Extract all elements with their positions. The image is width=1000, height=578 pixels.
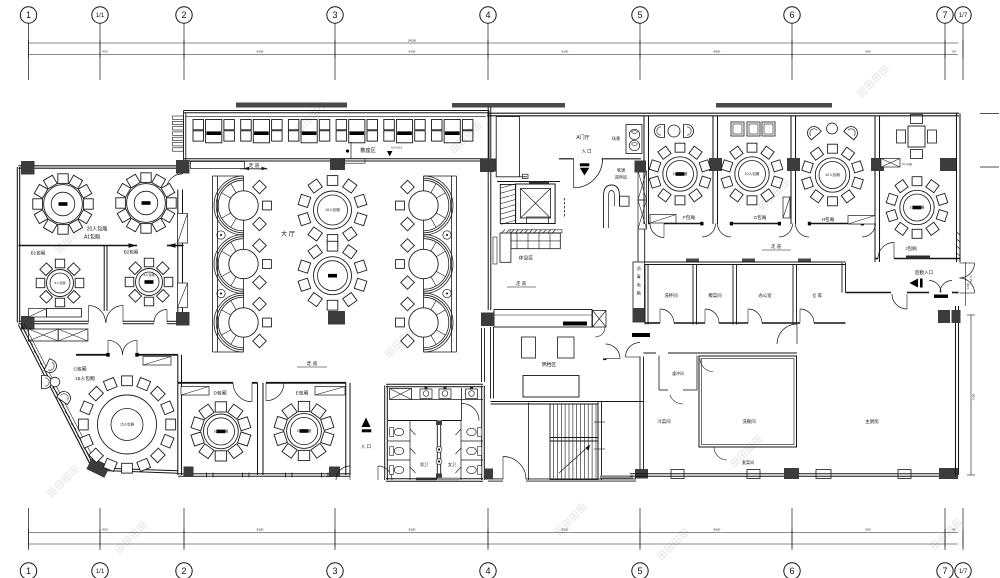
- table G (10 seats): [721, 143, 783, 205]
- window ticks D/E bottom: [206, 473, 208, 478]
- dashed frame mark: [564, 198, 566, 218]
- svg-text:900: 900: [102, 50, 107, 54]
- wall H-J: [874, 116, 876, 262]
- J wall black sill: [906, 256, 930, 259]
- svg-text:10人包厢: 10人包厢: [297, 428, 312, 433]
- hall booth right pedestals: [443, 231, 451, 239]
- svg-text:24000: 24000: [408, 39, 417, 43]
- svg-text:后勤入口: 后勤入口: [915, 269, 934, 276]
- grid lines bottom: [28, 508, 30, 550]
- B divider wall: [103, 246, 105, 312]
- svg-text:90: 90: [952, 528, 956, 532]
- 明档 big rect: [523, 376, 579, 398]
- A1 divider wall: [19, 245, 138, 247]
- lounge sofa L: [511, 233, 560, 249]
- svg-text:仓 库: 仓 库: [812, 292, 823, 299]
- svg-text:主厨房: 主厨房: [865, 418, 879, 425]
- column E bottom-right: [329, 467, 340, 478]
- C room top wall: [76, 354, 108, 356]
- hall booth right 1: [396, 176, 453, 235]
- table J (10 seats): [886, 177, 948, 239]
- toilet corridor arc: [462, 404, 479, 421]
- svg-text:5: 5: [637, 10, 642, 20]
- corridor double door arcs: [606, 344, 621, 359]
- hall booth left 2: [214, 235, 271, 294]
- hall booth left spine: [212, 176, 214, 352]
- B1 double door arcs: [89, 306, 106, 323]
- svg-text:7: 7: [942, 566, 947, 576]
- svg-text:走 道: 走 道: [771, 243, 782, 250]
- G-H door arcs: [779, 224, 793, 238]
- toilet WCs left: [390, 428, 404, 437]
- J square table: [908, 126, 925, 147]
- svg-text:H包厢: H包厢: [822, 216, 835, 223]
- hatched boxes bottom-left: [29, 329, 59, 341]
- lobby left wall: [487, 107, 489, 310]
- B block bottom wall: [19, 323, 89, 325]
- toilet outer walls: [386, 386, 483, 388]
- toilet stall door marks: [410, 429, 416, 435]
- band outer wall: [184, 110, 490, 112]
- G cabinet: [783, 197, 790, 218]
- svg-text:8000: 8000: [714, 528, 721, 532]
- hall table 2 (10 seats): [298, 241, 367, 310]
- svg-text:10人包厢: 10人包厢: [673, 171, 688, 176]
- G room sofas: [731, 122, 744, 136]
- wall x844: [841, 263, 843, 293]
- stair sill gray: [600, 475, 633, 479]
- J door arc: [878, 243, 894, 259]
- svg-text:10人包厢: 10人包厢: [825, 172, 840, 177]
- stairs outer: [550, 404, 598, 480]
- svg-text:10人包厢: 10人包厢: [325, 207, 340, 212]
- hall sideboard rect: [191, 162, 245, 169]
- C door jambs: [106, 353, 109, 357]
- toilet stall walls right: [461, 440, 483, 442]
- svg-text:15人包厢: 15人包厢: [75, 375, 95, 382]
- table H (10 seats): [802, 144, 864, 206]
- svg-text:女卫: 女卫: [448, 461, 456, 467]
- svg-text:电: 电: [637, 281, 641, 287]
- F bottom wall: [649, 223, 651, 225]
- svg-text:15人包厢: 15人包厢: [120, 422, 135, 427]
- column hall top: [330, 158, 345, 170]
- table A1-1 (12 seats): [33, 174, 93, 234]
- hall booth right spine: [451, 176, 453, 352]
- svg-text:休息区: 休息区: [519, 255, 534, 262]
- svg-text:F包厢: F包厢: [683, 214, 695, 221]
- F-G door arcs: [702, 224, 716, 238]
- kitchen door arc from corridor: [892, 294, 907, 309]
- svg-text:900: 900: [865, 50, 870, 54]
- 明档 xbox right: [593, 311, 607, 328]
- kitchen bottom wall: [630, 475, 959, 477]
- 缓冲间 walls: [658, 356, 660, 391]
- elevator side shaft: [500, 185, 515, 224]
- lower block top wall: [644, 352, 657, 354]
- column G-H: [787, 158, 800, 171]
- svg-text:擦菜间: 擦菜间: [708, 292, 721, 299]
- column 明档 counter left: [481, 313, 494, 327]
- svg-text:3: 3: [332, 10, 337, 20]
- hall top label box: [344, 159, 365, 164]
- entrance door arcs: [336, 466, 350, 480]
- svg-text:8人包厢: 8人包厢: [144, 272, 155, 277]
- B2 door arc: [154, 310, 167, 323]
- D door arc: [233, 383, 252, 402]
- column kitchen left bottom: [635, 469, 648, 479]
- band parapet bars: [236, 103, 347, 108]
- band bottom wall: [184, 158, 490, 160]
- lobby-kitchen wall link: [637, 229, 639, 262]
- svg-text:走 道: 走 道: [307, 360, 318, 367]
- D/E divider wall: [257, 383, 259, 475]
- wall 办公-仓库: [792, 265, 794, 325]
- back entry bar: [934, 295, 948, 298]
- svg-text:90: 90: [952, 50, 956, 54]
- table E (10 seats): [274, 401, 334, 460]
- C room corner column: [86, 457, 110, 477]
- table D (10 seats): [191, 402, 251, 461]
- kitchen left wall top: [644, 265, 646, 325]
- shelf bottom-left: [29, 309, 47, 318]
- band left comb: [173, 116, 184, 119]
- J right wall: [956, 113, 958, 262]
- column hall mid-right: [480, 159, 494, 172]
- stairs landing: [550, 437, 598, 439]
- corridor double door arcs: [929, 281, 941, 293]
- cabinet right wall upper: [178, 214, 188, 244]
- svg-text:8100: 8100: [257, 50, 264, 54]
- C room bottom wall: [94, 470, 178, 473]
- toilet basin counter: [412, 399, 484, 401]
- J right wall window hatch: [957, 232, 961, 235]
- 仓库 door arc: [800, 309, 814, 323]
- 套菜间 door arc: [714, 447, 727, 460]
- svg-text:20人包厢: 20人包厢: [87, 226, 108, 233]
- A1 door arrow 2: [167, 243, 176, 247]
- svg-text:迎宾区: 迎宾区: [615, 174, 628, 181]
- grid bubbles bottom: [20, 563, 36, 578]
- watermark: [47, 466, 78, 497]
- hall booth left pedestals: [217, 231, 225, 239]
- hall booth right 2: [396, 235, 453, 294]
- svg-text:1/7: 1/7: [959, 13, 968, 19]
- svg-text:套菜间: 套菜间: [742, 459, 754, 465]
- svg-text:3.6米: 3.6米: [966, 282, 970, 289]
- toilet top xbox: [390, 389, 412, 400]
- band booth modules: [193, 120, 204, 130]
- right dim upper: [965, 262, 967, 306]
- stairs right wall: [597, 402, 599, 480]
- svg-text:G包厢: G包厢: [754, 214, 767, 221]
- wall 洗杯-擦菜: [692, 265, 694, 325]
- FGH door jambs: [700, 222, 703, 226]
- column B bottom-right: [176, 312, 190, 326]
- column kitchen right top: [938, 310, 950, 323]
- svg-text:C包厢: C包厢: [73, 366, 86, 373]
- stair hall left wall: [528, 403, 530, 481]
- kitchen rooms bottom wall: [645, 322, 660, 324]
- svg-text:10人包厢: 10人包厢: [745, 171, 760, 176]
- svg-text:CH +0.15: CH +0.15: [391, 146, 403, 150]
- svg-text:1: 1: [26, 566, 31, 576]
- svg-text:2: 2: [181, 566, 186, 576]
- C room right wall: [177, 355, 179, 475]
- svg-text:D包厢: D包厢: [213, 390, 226, 397]
- stairs wall ticks: [594, 421, 605, 423]
- svg-text:A1包厢: A1包厢: [84, 234, 100, 241]
- column F-G: [709, 158, 722, 171]
- svg-text:7: 7: [942, 10, 947, 20]
- column H-J: [871, 158, 884, 171]
- svg-text:8000: 8000: [714, 50, 721, 54]
- svg-text:箱: 箱: [637, 290, 641, 296]
- svg-text:办公室: 办公室: [758, 292, 772, 299]
- svg-text:J包厢: J包厢: [905, 245, 917, 252]
- svg-text:走 道: 走 道: [516, 280, 527, 287]
- table F (10 seats): [649, 143, 711, 205]
- svg-text:大 厅: 大 厅: [281, 230, 295, 238]
- stairs diagonal arrow: [559, 445, 590, 473]
- cabinet right wall lower: [178, 283, 188, 308]
- grid bubbles top: [20, 7, 36, 23]
- svg-text:900: 900: [865, 528, 870, 532]
- column lobby-F: [635, 161, 647, 173]
- A1 door arc to hall: [167, 174, 183, 190]
- H bottom wall: [796, 223, 810, 225]
- column J right: [940, 158, 956, 171]
- 洗碗间 door arc: [700, 359, 713, 372]
- column toilet right: [484, 469, 493, 480]
- wall F-G: [712, 116, 714, 224]
- A1 door arrow 1: [129, 243, 138, 247]
- hall table 1 (10 seats): [298, 176, 367, 245]
- entrance symbol: [362, 418, 371, 428]
- svg-text:1: 1: [26, 10, 31, 20]
- grid lines top: [28, 23, 30, 80]
- kitchen parapet ticks: [686, 259, 699, 262]
- lobby entry symbol: [580, 163, 590, 166]
- svg-text:1/7: 1/7: [959, 569, 968, 575]
- toilet center wall: [436, 421, 438, 479]
- D/E top wall: [178, 382, 233, 384]
- svg-text:明档区: 明档区: [542, 361, 557, 368]
- 消毒电箱 strip: [633, 262, 645, 322]
- svg-text:6: 6: [789, 10, 794, 20]
- E door arc: [266, 383, 284, 401]
- svg-text:B1包厢: B1包厢: [31, 250, 46, 257]
- lobby X strip: [638, 171, 647, 200]
- C room sofa chairs: [44, 359, 59, 375]
- F room sofas: [655, 125, 665, 138]
- svg-text:7200: 7200: [972, 393, 976, 400]
- 明档区 right door arc: [595, 327, 605, 337]
- svg-text:B2包厢: B2包厢: [124, 249, 139, 256]
- svg-text:10人包厢: 10人包厢: [910, 205, 925, 210]
- svg-text:4: 4: [485, 10, 490, 20]
- column hall bottom: [328, 311, 345, 325]
- svg-text:6: 6: [789, 566, 794, 576]
- column lobby left: [483, 159, 497, 172]
- toilet stall walls left: [388, 440, 410, 442]
- C room label box: [143, 357, 171, 366]
- svg-text:冷菜间: 冷菜间: [657, 418, 670, 425]
- svg-text:走 道: 走 道: [249, 162, 260, 169]
- hall right wall extension: [481, 328, 483, 382]
- E label box: [315, 387, 345, 396]
- svg-text:3: 3: [332, 566, 337, 576]
- 明档区 counter: [494, 310, 592, 328]
- scene box: [626, 125, 642, 154]
- D label box: [181, 387, 209, 396]
- stairs treads: [553, 404, 555, 480]
- A1 block right wall: [177, 167, 179, 174]
- svg-text:10人包厢: 10人包厢: [902, 162, 912, 166]
- G bottom wall: [717, 223, 719, 225]
- svg-text:1/1: 1/1: [96, 569, 105, 575]
- hall booth right 3: [396, 293, 453, 352]
- top wall right section: [487, 112, 959, 114]
- hatch marks below elevator: [501, 230, 556, 234]
- kitchen block left wall: [639, 357, 641, 471]
- svg-text:毒: 毒: [637, 273, 641, 279]
- H room sofas: [805, 124, 821, 140]
- svg-text:入 口: 入 口: [581, 149, 591, 154]
- C room door arcs: [108, 340, 123, 355]
- 明档区 bottom wall: [491, 401, 645, 403]
- wall 擦菜-办公: [732, 265, 734, 325]
- back entry symbol: [910, 279, 919, 288]
- column B bottom-left: [21, 316, 35, 330]
- svg-text:8100: 8100: [257, 528, 264, 532]
- svg-text:8x0.15: 8x0.15: [970, 275, 973, 283]
- 擦菜间 door arc: [705, 309, 719, 323]
- band partition: [350, 142, 352, 159]
- 明档 counter black tray: [563, 322, 587, 326]
- kitchen bottom pads: [671, 470, 684, 479]
- 办公室 door arc: [748, 309, 762, 323]
- kitchen top wall: [645, 261, 846, 263]
- J label xbox: [881, 159, 900, 168]
- dimension lines bottom: [29, 532, 959, 534]
- hall booth left 3: [214, 293, 271, 352]
- 洗碗间 walls: [699, 356, 797, 447]
- H label box: [848, 216, 875, 225]
- toilet WCs right: [467, 428, 482, 437]
- svg-text:洗杯间: 洗杯间: [664, 292, 677, 299]
- D/E bottom wall: [178, 475, 350, 477]
- svg-text:8人包厢: 8人包厢: [55, 280, 66, 285]
- back entry door arcs: [960, 263, 975, 278]
- svg-text:场景: 场景: [612, 135, 620, 142]
- table B2 (8 seats): [125, 258, 173, 306]
- booth dimension arrow: [244, 168, 268, 170]
- svg-text:缓冲间: 缓冲间: [672, 371, 684, 376]
- 明档区 left wall: [490, 327, 492, 399]
- kitchen right wall: [955, 306, 957, 475]
- right dimension line: [970, 315, 972, 475]
- svg-text:1/1: 1/1: [96, 13, 105, 19]
- elevator shaft: [516, 184, 556, 224]
- svg-text:2: 2: [181, 10, 186, 20]
- svg-text:4: 4: [485, 566, 490, 576]
- 洗杯间 door arc: [660, 309, 674, 323]
- svg-text:10人包厢: 10人包厢: [214, 429, 229, 434]
- A1 block outer walls: [19, 167, 185, 169]
- svg-text:洗碗间: 洗碗间: [742, 418, 755, 425]
- C room slant wall: [18, 325, 93, 470]
- table C (16 seats): [78, 376, 175, 473]
- svg-text:男卫: 男卫: [420, 462, 428, 467]
- 明档 prep tables: [522, 337, 536, 358]
- corridor wall y292: [846, 292, 892, 294]
- E room right wall: [345, 383, 347, 475]
- A门厅 screen box: [496, 117, 519, 177]
- column D/E bottom-left: [184, 467, 194, 478]
- svg-text:收银: 收银: [617, 167, 626, 174]
- bottom wall toilets-stairs: [488, 480, 503, 482]
- svg-text:消: 消: [637, 265, 641, 271]
- svg-text:8100: 8100: [562, 528, 569, 532]
- wall G-H: [790, 116, 792, 224]
- reception desk: [604, 185, 620, 228]
- 主厨房 door arc: [777, 324, 797, 344]
- svg-text:散座区: 散座区: [360, 146, 376, 154]
- urinals center: [436, 447, 442, 453]
- F label box: [650, 215, 676, 224]
- lobby door arc: [574, 159, 603, 188]
- svg-text:E包厢: E包厢: [296, 390, 309, 397]
- svg-text:8100: 8100: [409, 528, 416, 532]
- corridor door arc bottom: [503, 457, 526, 480]
- elevator top wall: [497, 181, 560, 183]
- svg-text:8100: 8100: [562, 50, 569, 54]
- 套菜间 wall: [699, 446, 713, 448]
- toilet stall top wall: [388, 420, 437, 422]
- table B1 (8 seats): [36, 259, 84, 307]
- F left door arc: [650, 224, 664, 238]
- hall booth left 1: [214, 176, 271, 235]
- J bottom wall: [875, 258, 878, 260]
- svg-text:8100: 8100: [409, 50, 416, 54]
- column A1 top-left: [21, 161, 35, 175]
- svg-text:A门厅: A门厅: [576, 134, 589, 141]
- wall lobby-F: [643, 116, 645, 224]
- 消毒 black bar: [632, 333, 650, 337]
- table A1-2 (12 seats): [116, 173, 176, 233]
- H right door arc: [862, 224, 876, 238]
- dimension lines top: [29, 42, 959, 44]
- 缓冲间 door arc: [670, 395, 683, 404]
- right side dim marks: [980, 113, 999, 115]
- column A1 top-right: [176, 160, 190, 174]
- svg-text:5: 5: [637, 566, 642, 576]
- svg-text:900: 900: [102, 528, 107, 532]
- lobby entry wall: [559, 158, 574, 160]
- toilet bottom sills: [416, 478, 437, 481]
